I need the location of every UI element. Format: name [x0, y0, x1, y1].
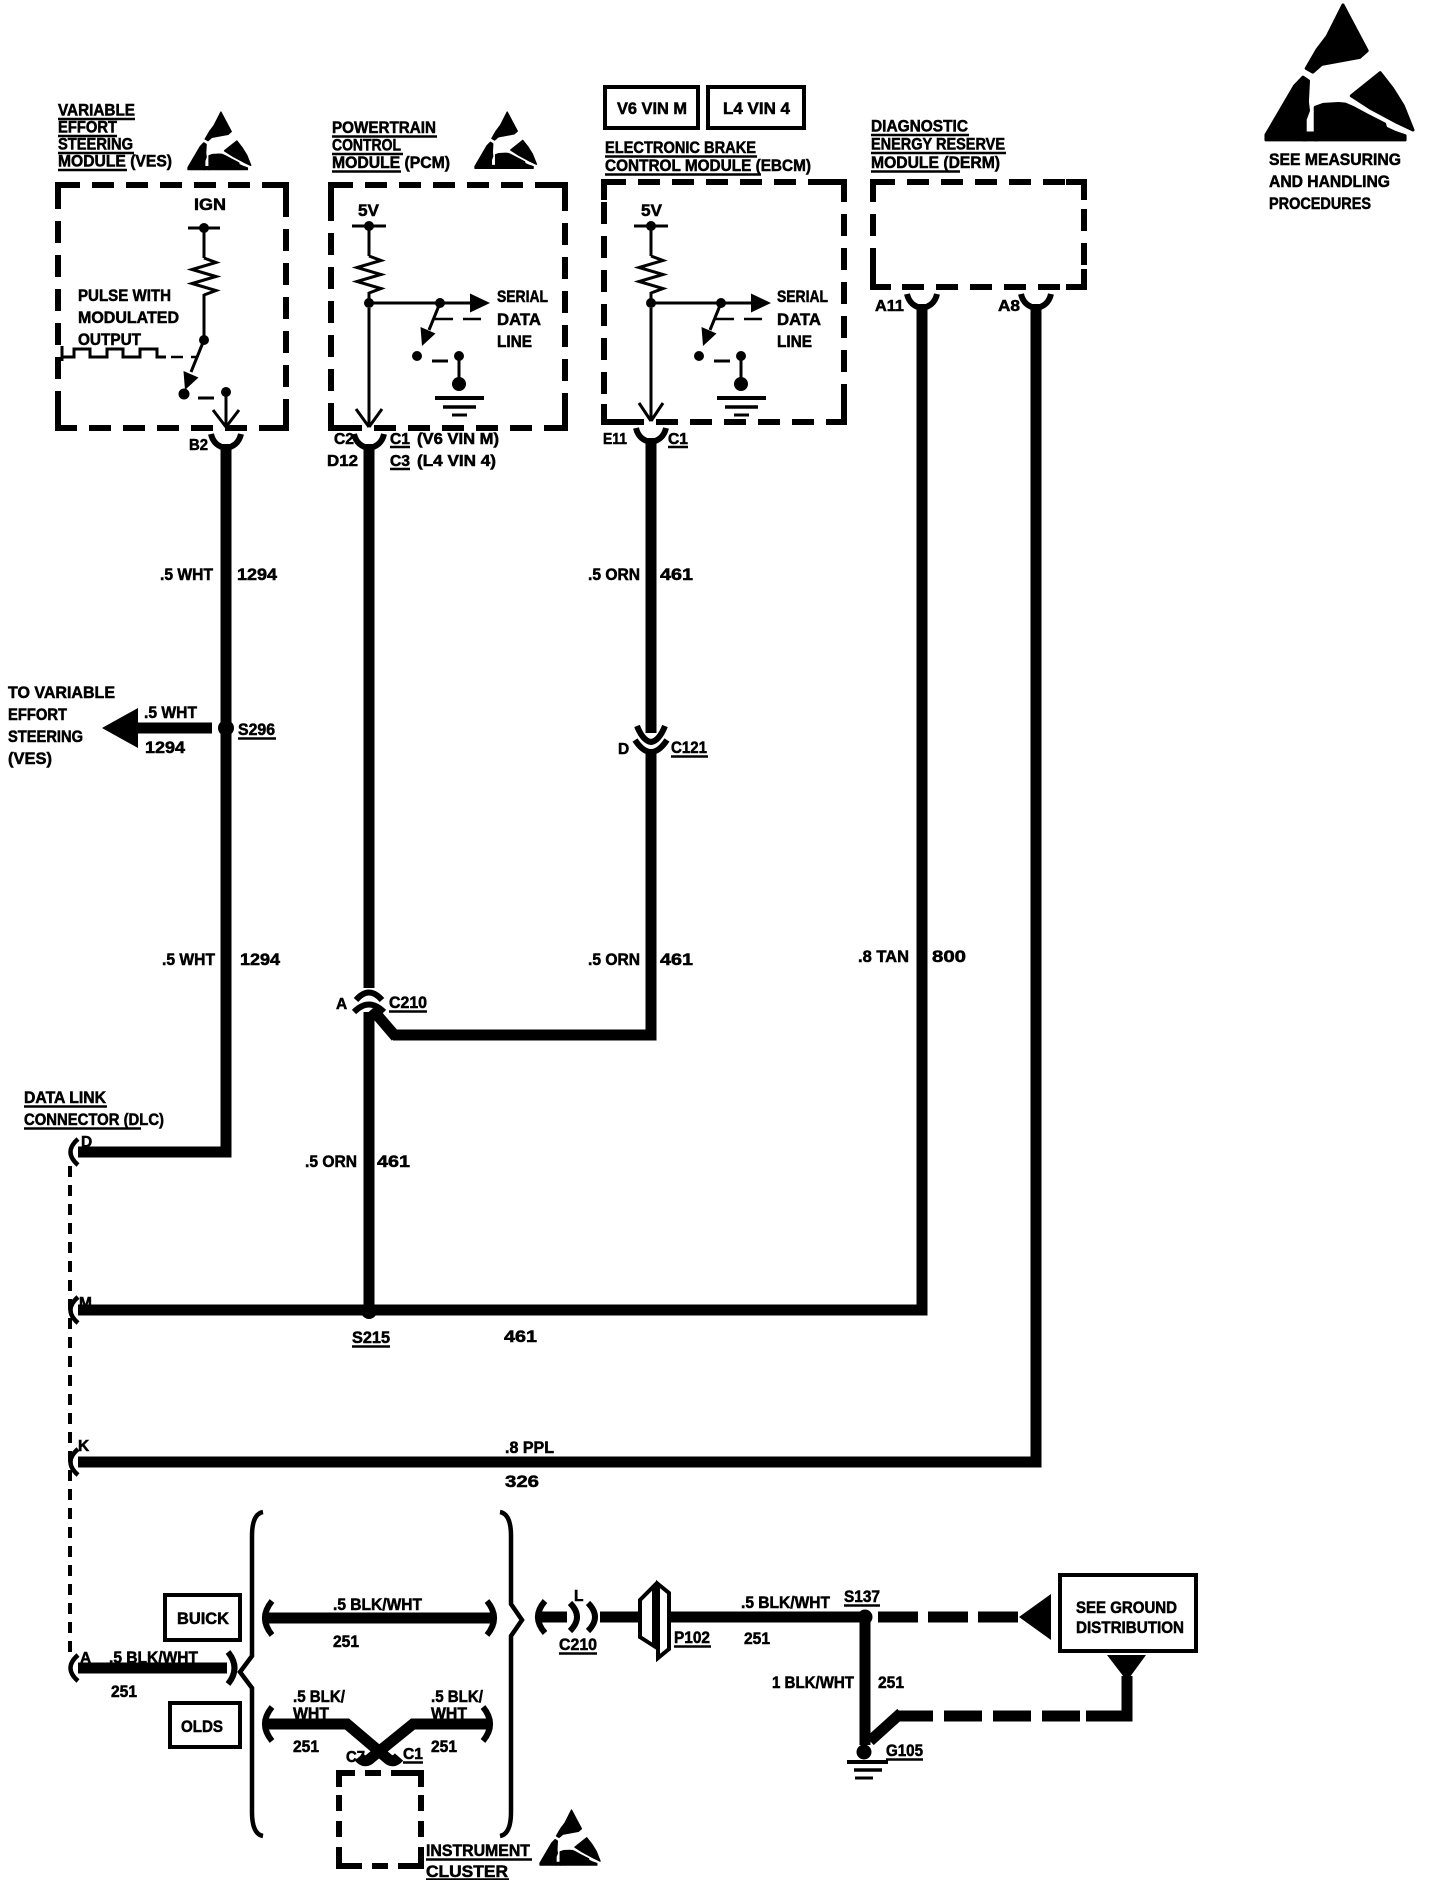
wire PPL 326 from A8 to K line	[1024, 304, 1036, 1462]
svg-text:C1: C1	[403, 1746, 423, 1763]
wire ORN 461 from E11 to C121	[646, 438, 657, 733]
DLC title	[24, 1088, 164, 1129]
svg-text:E11: E11	[603, 431, 627, 448]
wire ORN 461 from C2 to C210	[364, 444, 375, 988]
svg-text:SERIAL: SERIAL	[497, 287, 548, 306]
svg-text:PULSE WITH: PULSE WITH	[78, 286, 171, 305]
svg-text:MODULATED: MODULATED	[78, 308, 179, 327]
svg-text:5V: 5V	[641, 201, 663, 220]
svg-text:5V: 5V	[358, 201, 380, 220]
wire	[368, 226, 371, 256]
svg-text:800: 800	[932, 947, 966, 966]
svg-text:LINE: LINE	[777, 332, 812, 351]
wire WHT 1294 from B2 to DLC D	[78, 444, 226, 1152]
svg-text:L4 VIN 4: L4 VIN 4	[723, 99, 791, 118]
svg-text:P102: P102	[674, 1628, 710, 1647]
svg-text:S296: S296	[238, 720, 275, 739]
svg-text:K: K	[78, 1438, 90, 1455]
resistor (VES pull-up)	[192, 258, 216, 295]
svg-text:D12: D12	[327, 453, 358, 470]
serial data line arrow (PCM)	[369, 302, 471, 305]
wire ORN 461 from C210 to S215	[364, 1012, 375, 1314]
splice S137	[858, 1610, 873, 1625]
svg-text:B2: B2	[189, 437, 208, 454]
svg-text:PROCEDURES: PROCEDURES	[1269, 194, 1371, 213]
svg-text:DATA: DATA	[497, 310, 541, 329]
L4 VIN 4 tag box	[708, 87, 804, 128]
note SEE MEASURING AND HANDLING PROCEDURES	[1269, 150, 1401, 213]
svg-text:1294: 1294	[145, 738, 186, 757]
wire	[368, 292, 371, 303]
svg-text:.5 WHT: .5 WHT	[160, 565, 214, 584]
svg-text:251: 251	[744, 1629, 770, 1648]
ground (EBCM internal)	[736, 351, 746, 361]
svg-text:(VES): (VES)	[8, 749, 52, 768]
serial data line arrow (EBCM)	[651, 302, 752, 305]
wire from arrow	[1086, 1676, 1127, 1716]
arrow (off-page, ground distribution)	[1019, 1594, 1051, 1640]
ESD symbol at VES	[188, 112, 251, 170]
wire jog to ground wire	[870, 1713, 901, 1741]
wire	[203, 294, 206, 338]
ground G105	[857, 1745, 872, 1760]
svg-text:G105: G105	[886, 1741, 923, 1760]
ESD symbol at PCM	[475, 112, 536, 168]
svg-text:DATA LINK: DATA LINK	[24, 1088, 107, 1107]
svg-text:DIAGNOSTIC: DIAGNOSTIC	[871, 117, 968, 136]
switch S (VES output driver)	[199, 335, 209, 345]
wire BLK/WHT 251 (OLDS right)	[359, 1724, 489, 1761]
svg-text:V6 VIN M: V6 VIN M	[617, 99, 687, 118]
ground (PCM internal)	[454, 351, 464, 361]
svg-text:WHT: WHT	[293, 1704, 330, 1723]
svg-text:C3: C3	[390, 453, 410, 470]
wire to C210	[540, 1612, 567, 1623]
svg-text:INSTRUMENT: INSTRUMENT	[426, 1841, 531, 1860]
svg-text:1294: 1294	[237, 565, 278, 584]
svg-text:POWERTRAIN: POWERTRAIN	[332, 118, 436, 137]
svg-text:461: 461	[660, 950, 693, 969]
instrument cluster title	[426, 1841, 532, 1880]
switch S (EBCM driver)	[716, 298, 726, 308]
module VES dashed box	[58, 185, 286, 428]
instrument cluster dashed box	[339, 1773, 421, 1866]
connector cap after brace	[538, 1601, 545, 1633]
exit arrow to E11	[650, 308, 653, 420]
connector C210 (pin L)	[570, 1603, 577, 1631]
svg-text:MODULE (DERM): MODULE (DERM)	[871, 153, 1000, 172]
ESD symbol large (top right)	[1266, 5, 1413, 140]
label PULSE WITH MODULATED OUTPUT	[78, 286, 179, 349]
svg-text:EFFORT: EFFORT	[8, 705, 68, 724]
svg-text:1294: 1294	[240, 950, 281, 969]
svg-text:.5 BLK/WHT: .5 BLK/WHT	[333, 1595, 423, 1614]
svg-text:251: 251	[111, 1682, 137, 1701]
svg-text:C210: C210	[389, 993, 427, 1012]
ESD symbol at instrument cluster	[540, 1810, 600, 1865]
svg-text:.5 WHT: .5 WHT	[144, 703, 198, 722]
svg-text:LINE: LINE	[497, 332, 532, 351]
SEE GROUND DISTRIBUTION box	[1060, 1575, 1196, 1651]
svg-text:C1: C1	[390, 431, 410, 448]
svg-text:251: 251	[878, 1673, 904, 1692]
svg-text:.5 WHT: .5 WHT	[162, 950, 216, 969]
svg-text:MODULE (PCM): MODULE (PCM)	[332, 153, 450, 172]
svg-text:DISTRIBUTION: DISTRIBUTION	[1076, 1618, 1184, 1637]
svg-text:STEERING: STEERING	[8, 727, 83, 746]
wire PPL 326 from K	[78, 1457, 1036, 1468]
module EBCM dashed box	[604, 182, 844, 422]
VES output node	[221, 387, 231, 397]
exit arrow to C2	[368, 308, 371, 426]
wire 461 from M to A11 corner	[78, 1305, 922, 1316]
BUICK tag box	[165, 1595, 240, 1640]
wire BLK/WHT 251 (BUICK)	[266, 1613, 493, 1624]
brace right	[500, 1512, 522, 1836]
svg-text:AND HANDLING: AND HANDLING	[1269, 172, 1390, 191]
dashed wire to G105 branch	[898, 1711, 1080, 1722]
svg-text:IGN: IGN	[194, 195, 226, 214]
dashed link to switch	[171, 356, 196, 359]
svg-text:ELECTRONIC BRAKE: ELECTRONIC BRAKE	[605, 138, 756, 157]
svg-text:C121: C121	[671, 738, 707, 757]
connector C121 (pin D)	[637, 726, 665, 742]
arrow from box down	[1107, 1655, 1146, 1681]
svg-text:326: 326	[505, 1472, 539, 1491]
svg-text:MODULE (VES): MODULE (VES)	[58, 152, 172, 171]
resistor (EBCM pull-up)	[639, 256, 663, 293]
svg-text:251: 251	[431, 1737, 457, 1756]
svg-text:CLUSTER: CLUSTER	[426, 1862, 508, 1880]
pulse waveform	[62, 346, 166, 361]
svg-text:CONNECTOR (DLC): CONNECTOR (DLC)	[24, 1110, 164, 1129]
svg-text:C210: C210	[559, 1635, 597, 1654]
svg-text:DATA: DATA	[777, 310, 821, 329]
DERM title	[871, 117, 1006, 173]
V6 VIN M tag box	[605, 87, 698, 128]
svg-text:TO VARIABLE: TO VARIABLE	[8, 683, 115, 702]
connector P102	[640, 1586, 654, 1646]
wire C210 to P102	[600, 1612, 642, 1623]
OLDS tag box	[170, 1703, 240, 1747]
svg-text:.5 ORN: .5 ORN	[305, 1152, 357, 1171]
connector C210 (pin A)	[356, 993, 382, 1001]
wire	[203, 228, 206, 258]
svg-text:.8 TAN: .8 TAN	[858, 947, 909, 966]
arrow to VES (off-page)	[138, 723, 212, 734]
svg-text:S137: S137	[844, 1587, 880, 1606]
svg-text:.5 ORN: .5 ORN	[588, 950, 640, 969]
wire jog into C210	[372, 1009, 396, 1037]
wire ORN 461 from C121 to C210	[393, 754, 651, 1035]
splice S215	[361, 1303, 377, 1319]
svg-text:D: D	[81, 1134, 92, 1151]
PCM title	[332, 118, 450, 172]
svg-text:A11: A11	[875, 298, 904, 315]
exit arrow to B2	[225, 394, 228, 426]
svg-text:D: D	[618, 741, 629, 758]
module DERM dashed box	[873, 182, 1084, 287]
svg-text:C2: C2	[334, 431, 354, 448]
node junction EBCM	[646, 298, 656, 308]
svg-text:SEE GROUND: SEE GROUND	[1076, 1598, 1177, 1617]
svg-text:WHT: WHT	[431, 1704, 468, 1723]
wire	[650, 292, 653, 303]
svg-text:461: 461	[504, 1327, 537, 1346]
svg-text:SEE MEASURING: SEE MEASURING	[1269, 150, 1401, 169]
svg-text:461: 461	[660, 565, 693, 584]
EBCM title	[605, 138, 811, 175]
module PCM dashed box	[331, 185, 565, 428]
svg-text:.5 ORN: .5 ORN	[588, 565, 640, 584]
svg-text:L: L	[574, 1588, 583, 1605]
svg-text:C7: C7	[346, 1749, 365, 1766]
svg-text:1 BLK/WHT: 1 BLK/WHT	[772, 1673, 855, 1692]
svg-text:OLDS: OLDS	[181, 1717, 223, 1736]
svg-text:CONTROL MODULE (EBCM): CONTROL MODULE (EBCM)	[605, 156, 811, 175]
svg-text:SERIAL: SERIAL	[777, 287, 828, 306]
svg-text:(V6 VIN M): (V6 VIN M)	[417, 431, 499, 448]
wire TAN 800 from A11 to M line	[910, 304, 922, 1310]
svg-text:.8 PPL: .8 PPL	[505, 1438, 554, 1457]
VES title	[58, 101, 172, 171]
svg-text:A8: A8	[998, 298, 1020, 315]
svg-text:CONTROL: CONTROL	[332, 136, 401, 155]
note TO VARIABLE EFFORT STEERING (VES)	[8, 683, 115, 768]
svg-text:.5 BLK/WHT: .5 BLK/WHT	[109, 1648, 199, 1667]
DLC body dashed line	[68, 1166, 72, 1654]
svg-text:461: 461	[377, 1152, 410, 1171]
wire P102 to S137	[668, 1612, 868, 1623]
dashed wire S137 to ground distribution arrow	[878, 1612, 1018, 1623]
wire BLK/WHT 251 (OLDS left)	[266, 1724, 399, 1761]
wire BLK/WHT 251 from A to brace	[78, 1663, 227, 1674]
svg-text:BUICK: BUICK	[177, 1609, 230, 1628]
node junction PCM	[364, 298, 374, 308]
switch S (PCM driver)	[435, 298, 445, 308]
svg-text:C1: C1	[668, 431, 688, 448]
splice S296	[218, 720, 234, 736]
svg-text:ENERGY RESERVE: ENERGY RESERVE	[871, 135, 1005, 154]
svg-text:251: 251	[333, 1632, 359, 1651]
svg-text:(L4 VIN 4): (L4 VIN 4)	[417, 453, 496, 470]
resistor (PCM pull-up)	[357, 256, 381, 293]
svg-text:251: 251	[293, 1737, 319, 1756]
wire 1 BLK/WHT 251 to G105	[860, 1622, 871, 1745]
box corner marks	[58, 182, 1084, 428]
svg-text:S215: S215	[352, 1328, 390, 1347]
svg-text:OUTPUT: OUTPUT	[78, 330, 142, 349]
svg-text:.5 BLK/WHT: .5 BLK/WHT	[741, 1593, 831, 1612]
wire	[650, 226, 653, 256]
brace left	[240, 1512, 263, 1836]
svg-text:A: A	[336, 996, 347, 1013]
